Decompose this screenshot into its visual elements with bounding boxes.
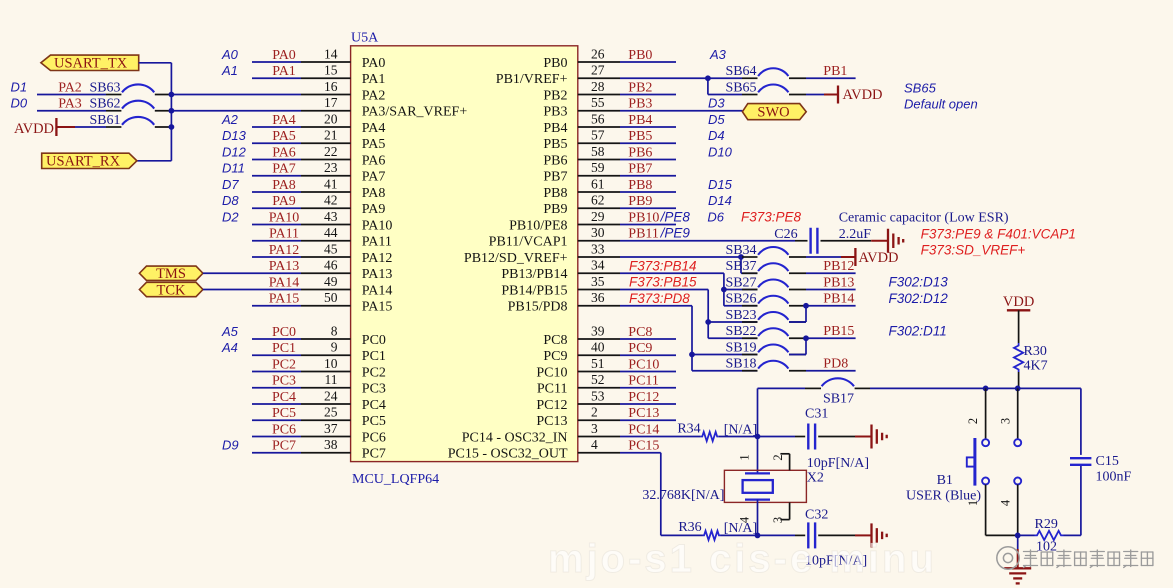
svg-text:R29: R29 [1035,517,1058,532]
svg-text:45: 45 [324,241,338,256]
svg-text:PB13: PB13 [823,275,854,290]
svg-text:A1: A1 [221,63,238,78]
svg-text:30: 30 [591,225,605,240]
wire PB7 pin 59 [578,160,676,176]
svg-text:C26: C26 [774,227,797,242]
svg-text:D4: D4 [708,128,725,143]
solder bridge SB34 row [725,243,757,258]
wire PB4 pin 56 [578,111,676,127]
svg-text:PB12: PB12 [823,259,854,274]
svg-text:4: 4 [999,499,1013,506]
wire PA11 pin 44 [252,225,351,241]
junction PB15-SB19 [803,335,809,341]
svg-text:PA0: PA0 [272,48,296,63]
svg-text:57: 57 [591,128,605,143]
svg-text:PB11: PB11 [628,227,659,242]
svg-text:PA7: PA7 [362,170,386,185]
junction PA2 [169,92,175,98]
solder bridge SB34 arc [758,247,788,255]
junction pin36 node [689,352,695,358]
svg-text:PB4: PB4 [543,121,567,136]
junction crystal top [755,434,761,440]
wire SB27 right to net PB13 [789,275,856,290]
wire R30 to node [1018,372,1020,388]
power AVDD mid right [855,248,898,266]
svg-text:23: 23 [324,160,338,175]
wire pin 35 F373:PB15 [578,274,708,322]
svg-text:/PE9: /PE9 [660,226,691,241]
wire SB17 to button node [855,387,1081,389]
svg-text:PB6: PB6 [628,145,652,160]
resistor R36 [678,520,720,540]
wire PC14 pin 3 [578,421,701,437]
svg-text:PC2: PC2 [272,357,296,372]
svg-text:F373:PD8: F373:PD8 [629,291,690,306]
svg-text:F373:PB14: F373:PB14 [629,258,697,273]
wire button pin 3 [1017,388,1019,439]
svg-text:PA12: PA12 [269,243,300,258]
svg-text:AVDD: AVDD [859,250,899,266]
capacitor C32 [805,508,828,549]
svg-text:1: 1 [966,500,980,506]
svg-text:A2: A2 [221,112,239,127]
svg-text:F302:D11: F302:D11 [889,323,947,338]
svg-text:PA1: PA1 [272,64,296,79]
resistor R30 [1014,343,1048,374]
svg-text:PA2: PA2 [362,88,386,103]
wire PC10 pin 51 [578,356,676,372]
wire node to C31 [758,436,806,438]
svg-text:F373:PE8: F373:PE8 [741,209,802,224]
svg-text:38: 38 [324,437,338,452]
wire PC3 pin 11 [252,372,351,388]
svg-text:SB26: SB26 [725,292,756,307]
wire PC1 pin 9 [252,340,351,356]
power AVDD left [14,118,75,137]
svg-text:3: 3 [591,421,598,436]
svg-text:PB15/PD8: PB15/PD8 [508,300,568,315]
svg-text:SB61: SB61 [89,113,120,128]
svg-text:PA8: PA8 [272,178,296,193]
svg-text:1: 1 [738,454,752,460]
svg-text:26: 26 [591,46,605,61]
wire USART_TX to junction column [137,63,172,161]
solder bridge SB37 row [725,259,757,274]
svg-text:PC1: PC1 [272,341,296,356]
svg-text:VDD: VDD [1003,294,1034,310]
junction SB61 [169,124,175,130]
svg-text:PC15: PC15 [628,439,659,454]
svg-text:F302:D13: F302:D13 [889,275,949,290]
svg-text:PA15: PA15 [269,292,300,307]
svg-text:28: 28 [591,79,605,94]
svg-text:SB37: SB37 [725,259,756,274]
svg-text:PC13: PC13 [628,406,659,421]
svg-text:PB3: PB3 [628,97,652,112]
svg-text:AVDD: AVDD [14,121,54,137]
svg-text:4: 4 [591,437,598,452]
svg-text:36: 36 [591,290,605,305]
svg-text:PA2: PA2 [58,80,82,95]
svg-text:F302:D12: F302:D12 [889,291,949,306]
wire PB14 to SB23 right [805,306,807,322]
svg-text:PB9: PB9 [628,194,652,209]
svg-text:51: 51 [591,356,605,371]
svg-text:SB23: SB23 [725,308,756,323]
svg-text:D7: D7 [222,177,239,192]
wire PA0 pin 14 [252,46,351,62]
svg-text:42: 42 [324,193,338,208]
crystal pin 3 stub [780,502,789,519]
svg-text:PA10: PA10 [362,218,393,233]
svg-text:PC14: PC14 [628,422,659,437]
svg-text:PC0: PC0 [272,325,296,340]
solder bridge SB23 arc [758,312,788,320]
svg-text:PC12: PC12 [536,398,567,413]
svg-text:20: 20 [324,111,338,126]
svg-text:X2: X2 [807,471,824,486]
wire SB64 row to PB1 [708,64,856,79]
annotation SB65 Default open [904,80,978,111]
svg-text:PC6: PC6 [272,422,296,437]
solder bridge SB17 arc [822,378,854,386]
svg-text:USART_TX: USART_TX [54,56,128,72]
wire SB22 right to net PB15 [789,324,856,339]
wire PA7 pin 23 [252,160,351,176]
wire SB26 right to net PB14 [789,292,856,307]
svg-text:mjo-s1 cis-e minu: mjo-s1 cis-e minu [548,537,937,581]
crystal X2 component box [724,470,806,502]
junction PB1 column [705,75,711,81]
svg-text:PC7: PC7 [272,439,296,454]
wire PB1/VREF+ pin 27 [578,63,708,79]
svg-text:SB18: SB18 [725,357,756,372]
svg-text:PA13: PA13 [269,259,300,274]
wire SB18 right to net PD8 [789,357,856,372]
svg-text:PC11: PC11 [628,374,659,389]
svg-text:D13: D13 [222,128,247,143]
junction button pin2 [983,386,989,392]
wire crystal pin 4 to node [757,500,759,536]
svg-text:B1: B1 [937,473,953,488]
svg-text:PB10/PE8: PB10/PE8 [509,218,567,233]
wire PB6 pin 58 [578,144,676,160]
capacitor C31 [805,406,828,449]
wire PC12 pin 53 [578,388,676,404]
wire pin 34 F373:PB14 [578,258,724,290]
svg-text:PD8: PD8 [823,357,848,372]
svg-text:PA8: PA8 [362,186,386,201]
svg-text:SB19: SB19 [725,340,756,355]
svg-text:PB6: PB6 [543,153,567,168]
wire PC9 pin 40 [578,340,676,356]
svg-text:PB2: PB2 [628,80,652,95]
wire R34 to node [719,436,758,438]
svg-text:A4: A4 [221,340,238,355]
push button B1 actuator [967,438,975,486]
MCU left pin names PC0-PC7 [362,333,386,462]
svg-text:27: 27 [591,63,605,78]
svg-text:2: 2 [966,418,980,424]
svg-text:PA4: PA4 [362,121,386,136]
svg-text:PA5: PA5 [272,129,296,144]
svg-text:PC10: PC10 [628,357,659,372]
svg-text:PC5: PC5 [362,414,386,429]
svg-text:11: 11 [325,372,338,387]
wire PB15 to SB19 right [805,338,807,354]
wire PC8 pin 39 [578,323,676,339]
svg-text:PA4: PA4 [272,113,296,128]
solder bridge SB22 row [708,324,757,339]
svg-text:PC15 - OSC32_OUT: PC15 - OSC32_OUT [448,447,568,462]
wire PC15 pin 4 [578,437,703,535]
junction PB14-SB23 [803,303,809,309]
svg-text:SB34: SB34 [725,243,756,258]
svg-text:MCU_LQFP64: MCU_LQFP64 [352,472,439,487]
svg-text:C31: C31 [805,406,828,421]
svg-text:SB65: SB65 [904,80,937,95]
svg-text:R36: R36 [678,520,701,535]
wire C31 to ground [818,436,870,438]
svg-text:49: 49 [324,274,338,289]
svg-text:PB12/SD_VREF+: PB12/SD_VREF+ [464,251,568,266]
svg-text:PA1: PA1 [362,72,386,87]
svg-text:AVDD: AVDD [843,87,883,103]
wire PA12 pin 45 [252,241,351,257]
svg-text:PB14/PB15: PB14/PB15 [501,283,567,298]
solder bridge SB23 row [708,308,757,323]
svg-text:15: 15 [324,63,338,78]
wire pin 33 [578,241,741,257]
svg-text:F373:PB15: F373:PB15 [629,275,697,290]
svg-text:TCK: TCK [157,282,187,298]
svg-text:TMS: TMS [156,266,186,282]
svg-text:/PE8: /PE8 [660,209,691,224]
wire SB17 column down [757,388,759,436]
svg-text:PC7: PC7 [362,447,386,462]
wire PB9 pin 62 [578,193,676,209]
wire PC4 pin 24 [252,388,351,404]
svg-text:F373:PE9 & F401:VCAP1: F373:PE9 & F401:VCAP1 [921,227,1076,242]
svg-text:PB4: PB4 [628,113,652,128]
wire PC5 pin 25 [252,405,351,421]
port USART_RX [42,153,137,169]
junction PA3 [169,108,175,114]
svg-text:D3: D3 [708,96,725,111]
svg-text:3: 3 [771,517,785,523]
wire R36 to node [721,534,758,536]
wire PA13 pin 46 [203,258,351,274]
wire PB0 pin 26 [578,46,676,62]
solder bridge SB19 row [692,340,758,355]
MCU left pin names PA0-PA15 [362,56,468,315]
svg-text:22: 22 [324,144,338,159]
svg-text:PA7: PA7 [272,162,296,177]
svg-text:A5: A5 [221,324,239,339]
wire PB5 pin 57 [578,128,676,144]
svg-text:3: 3 [999,418,1013,424]
svg-text:PC5: PC5 [272,406,296,421]
svg-text:D9: D9 [222,438,239,453]
svg-text:59: 59 [591,160,605,175]
resistor R34 [677,421,718,441]
svg-text:PC14 - OSC32_IN: PC14 - OSC32_IN [462,430,568,445]
wire button pin 2 [985,388,987,439]
wire PC7 pin 38 [252,437,351,453]
wire node to R29 [1018,534,1035,536]
svg-text:PC6: PC6 [362,430,386,445]
svg-text:PB5: PB5 [628,129,652,144]
svg-text:PC8: PC8 [628,325,652,340]
svg-text:PB8: PB8 [543,186,567,201]
wire PA1 pin 15 [252,63,351,79]
svg-text:PA13: PA13 [362,267,393,282]
svg-text:PC13: PC13 [536,414,567,429]
svg-text:4K7: 4K7 [1024,359,1048,374]
wire SB23 right stub [789,321,806,323]
svg-text:PC10: PC10 [536,365,567,380]
junction button pin3 [1015,386,1021,392]
svg-text:PA14: PA14 [269,275,300,290]
svg-text:10pF[N/A]: 10pF[N/A] [807,456,869,471]
wire PA9 pin 42 [252,193,351,209]
wire PA8 pin 41 [252,176,351,192]
solder bridge SB62 arc [122,101,154,109]
wire button pin 4 [1017,485,1019,536]
wire button pin 1 [986,485,1018,536]
svg-text:D6: D6 [707,209,724,224]
wire node to C15 [1080,388,1082,455]
port TCK [139,282,203,298]
svg-text:44: 44 [324,225,338,240]
svg-text:24: 24 [324,388,338,403]
svg-text:16: 16 [324,79,338,94]
svg-text:21: 21 [324,128,338,143]
svg-text:62: 62 [591,193,605,208]
ground C31 [870,425,872,449]
svg-text:PC4: PC4 [272,390,296,405]
wire PC2 pin 10 [252,356,351,372]
svg-text:8: 8 [331,323,338,338]
svg-text:PC11: PC11 [537,382,568,397]
svg-text:[N/A]: [N/A] [724,521,757,536]
wire PB11/PE9 pin 30 [578,225,659,241]
wire SB23 right stub to junction [789,321,806,323]
svg-text:PB9: PB9 [543,202,567,217]
wire PC0 pin 8 [252,323,351,339]
solder bridge SB19 arc [758,344,788,352]
svg-text:A0: A0 [221,47,239,62]
svg-text:PC4: PC4 [362,398,386,413]
wire SB34 to AVDD [789,256,855,258]
svg-text:PC1: PC1 [362,349,386,364]
svg-text:PB7: PB7 [628,162,652,177]
wire R29 to C15 column [1064,534,1081,536]
svg-text:D8: D8 [222,193,239,208]
svg-text:39: 39 [591,323,605,338]
svg-text:PB8: PB8 [628,178,652,193]
svg-text:PB15: PB15 [823,324,854,339]
svg-text:SB65: SB65 [725,80,756,95]
wire C15 to bottom [1080,466,1082,535]
wire PC11 pin 52 [578,372,676,388]
svg-text:43: 43 [324,209,338,224]
solder bridge SB26 row [724,292,758,307]
wire PC6 pin 37 [252,421,351,437]
port TMS [139,266,203,282]
MCU right pin names PB0-PB15 [464,56,568,315]
wire AVDD to solder bridge SB61 [75,113,171,128]
solder bridge SB65 arc [758,84,788,92]
svg-text:52: 52 [591,372,605,387]
svg-text:PB3: PB3 [543,105,567,120]
junction pin34-pin35 node [721,287,727,293]
svg-text:PA12: PA12 [362,251,393,266]
svg-text:C32: C32 [805,508,828,523]
svg-text:D11: D11 [222,161,245,176]
wire pin34 node to SB26 row [723,290,725,306]
power AVDD top right [838,86,883,104]
solder bridge SB18 row [692,357,758,372]
svg-text:PA15: PA15 [362,300,393,315]
svg-text:D10: D10 [708,144,733,159]
svg-text:34: 34 [591,258,605,273]
svg-text:D15: D15 [708,177,733,192]
svg-text:PA14: PA14 [362,283,393,298]
wire pin36 node to SB18 row [691,355,693,371]
MCU U5A body [351,46,578,462]
svg-text:PC9: PC9 [543,349,567,364]
svg-text:37: 37 [324,421,338,436]
wire PB2 pin 28 [578,79,676,95]
MCU right pin names PC8-PC15 [448,333,568,462]
svg-text:14: 14 [324,46,338,61]
svg-text:PC3: PC3 [362,382,386,397]
junction pin35 node [705,319,711,325]
svg-text:SWO: SWO [757,104,789,120]
wire SB37 right to net PB12 [789,259,856,274]
junction ground node [1015,533,1021,539]
svg-text:SB27: SB27 [725,275,756,290]
svg-text:[N/A]: [N/A] [724,422,757,437]
svg-text:D0: D0 [11,96,28,111]
svg-text:46: 46 [324,258,338,273]
svg-text:F373:SD_VREF+: F373:SD_VREF+ [921,243,1026,258]
svg-text:55: 55 [591,95,605,110]
wire PA6 pin 22 [252,144,351,160]
svg-text:R30: R30 [1024,344,1047,359]
ground main [1004,568,1031,583]
svg-text:PB7: PB7 [543,170,567,185]
wire PC13 pin 2 [578,405,676,421]
svg-text:Default open: Default open [904,97,978,112]
solder bridge SB64 arc [758,68,788,76]
wire C32 to ground [818,534,870,536]
svg-text:USART_RX: USART_RX [46,154,121,170]
svg-text:32.768K[N/A]: 32.768K[N/A] [642,488,724,503]
svg-text:PA0: PA0 [362,56,386,71]
capacitor C15 [1070,454,1119,469]
svg-text:56: 56 [591,111,605,126]
crystal pin 2 stub [780,454,789,471]
wire PA14 pin 49 [203,274,351,290]
wire SB19 right stub to junction [789,354,806,356]
wire C26 to ground [821,240,888,242]
port USART_TX [41,55,139,72]
svg-text:A3: A3 [709,47,727,62]
svg-text:U5A: U5A [351,31,379,46]
svg-text:17: 17 [324,95,338,110]
